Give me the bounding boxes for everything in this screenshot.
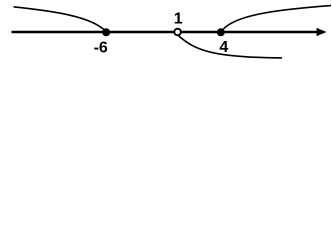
- curve lower branch (from 1, below line): [179, 36, 283, 58]
- svg-text:4: 4: [219, 39, 228, 56]
- closed point at 4: [217, 28, 225, 36]
- svg-text:1: 1: [174, 11, 183, 28]
- curve left branch (above line, into -6): [14, 7, 106, 31]
- closed point at -6: [102, 28, 110, 36]
- number line: [12, 31, 320, 33]
- open point at 1: [174, 29, 181, 36]
- arrowhead: [317, 28, 327, 36]
- curve upper-right branch (from 4, above line): [223, 6, 332, 30]
- svg-text:-6: -6: [94, 40, 108, 57]
